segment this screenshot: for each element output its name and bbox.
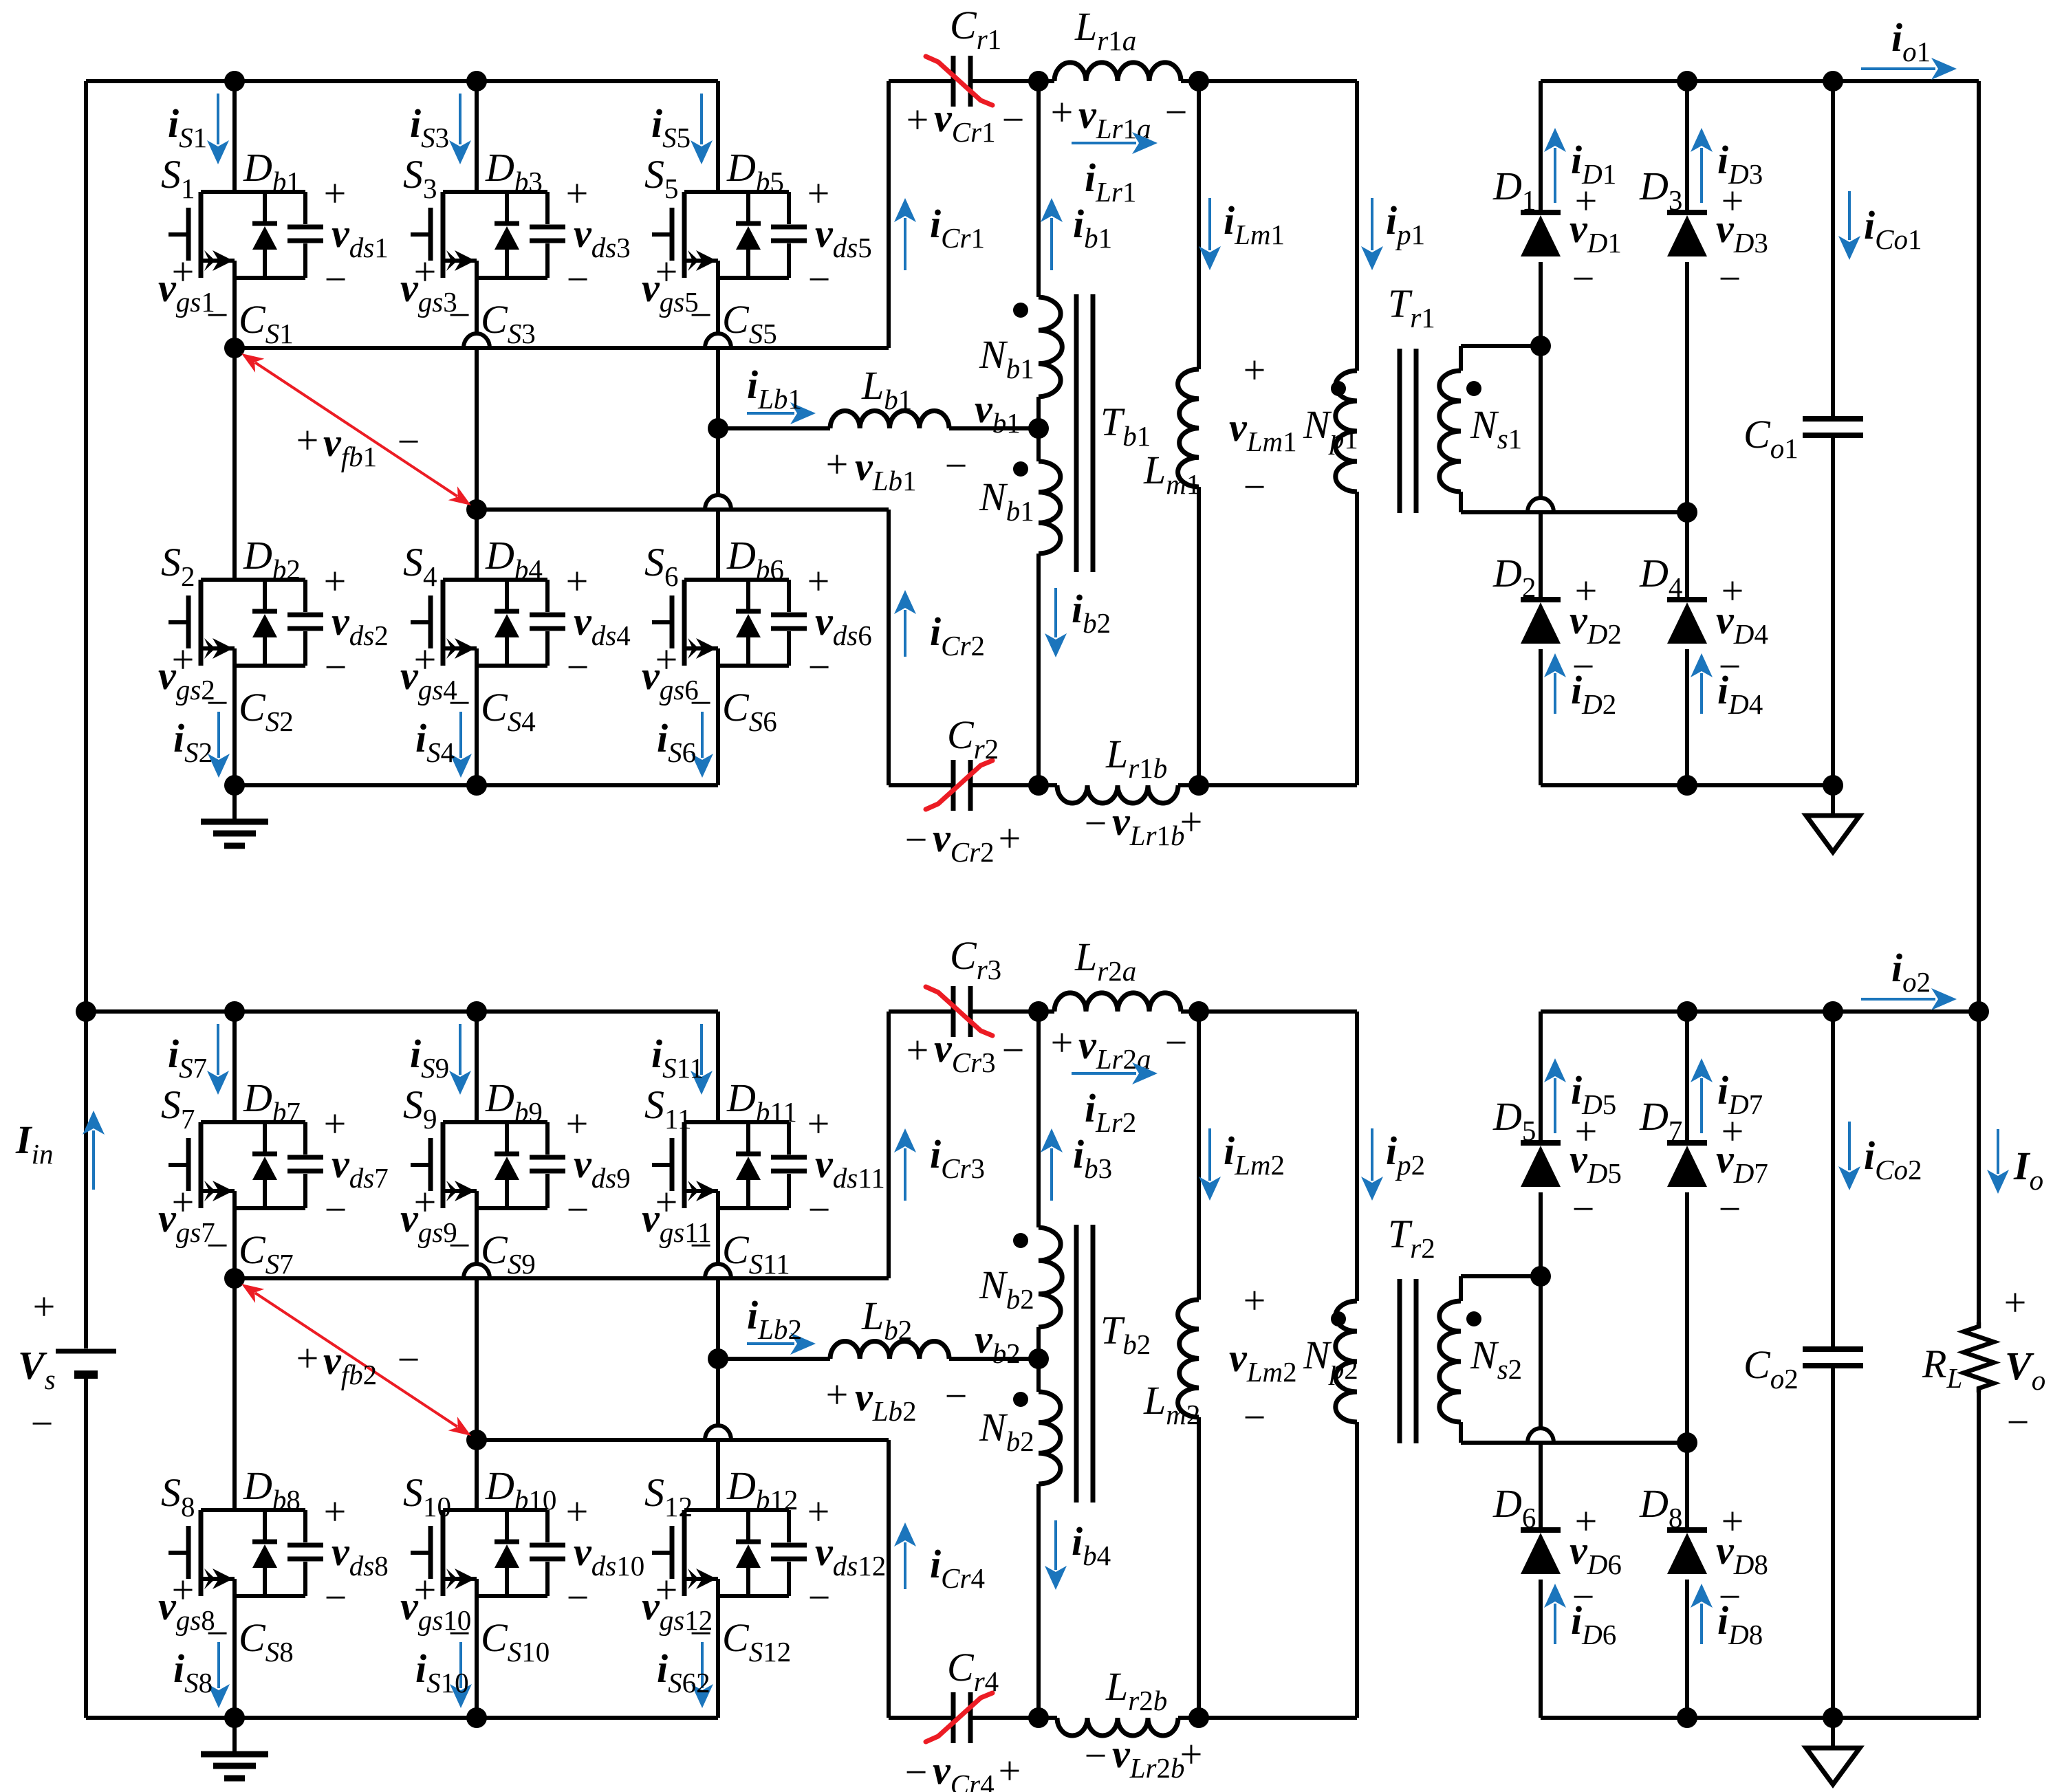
svg-text:−: −: [945, 1374, 968, 1419]
svg-text:+: +: [826, 442, 849, 487]
svg-text:−: −: [567, 257, 589, 302]
svg-text:−: −: [808, 1188, 831, 1232]
svg-text:+: +: [566, 1489, 589, 1534]
svg-text:−: −: [448, 1223, 471, 1268]
svg-text:−: −: [1719, 1187, 1741, 1232]
svg-text:−: −: [1002, 98, 1025, 142]
svg-text:+: +: [566, 171, 589, 216]
svg-text:+: +: [807, 559, 830, 604]
svg-text:+: +: [566, 559, 589, 604]
svg-text:−: −: [905, 818, 928, 862]
svg-text:−: −: [567, 645, 589, 690]
svg-text:−: −: [1572, 256, 1595, 301]
svg-text:+: +: [33, 1285, 56, 1329]
svg-text:−: −: [808, 257, 831, 302]
svg-text:+: +: [1180, 800, 1203, 844]
svg-text:−: −: [2007, 1400, 2030, 1445]
svg-text:−: −: [1572, 1187, 1595, 1232]
svg-text:−: −: [206, 1223, 229, 1268]
svg-text:+: +: [324, 559, 347, 604]
svg-text:−: −: [448, 293, 471, 338]
svg-text:−: −: [1085, 801, 1107, 846]
svg-text:−: −: [1243, 465, 1266, 510]
svg-text:+: +: [324, 1489, 347, 1534]
svg-text:+: +: [999, 1749, 1021, 1792]
svg-text:−: −: [325, 1575, 347, 1620]
svg-text:−: −: [1002, 1028, 1025, 1073]
svg-text:−: −: [945, 444, 968, 488]
svg-text:+: +: [296, 418, 319, 463]
svg-text:+: +: [566, 1102, 589, 1146]
svg-text:−: −: [206, 293, 229, 338]
svg-text:−: −: [1719, 256, 1741, 301]
svg-text:−: −: [690, 293, 713, 338]
svg-text:+: +: [807, 1489, 830, 1534]
svg-text:−: −: [567, 1575, 589, 1620]
svg-text:+: +: [826, 1373, 849, 1417]
svg-text:−: −: [398, 419, 420, 464]
svg-text:−: −: [1165, 90, 1188, 135]
svg-text:+: +: [324, 1102, 347, 1146]
svg-text:−: −: [905, 1750, 928, 1792]
svg-text:+: +: [296, 1336, 319, 1381]
svg-text:−: −: [808, 645, 831, 690]
svg-text:+: +: [1051, 90, 1074, 135]
svg-text:−: −: [31, 1401, 54, 1446]
svg-text:−: −: [690, 1223, 713, 1268]
svg-text:+: +: [807, 1102, 830, 1146]
svg-text:+: +: [324, 171, 347, 216]
svg-text:−: −: [398, 1337, 420, 1382]
svg-text:+: +: [1243, 1278, 1266, 1323]
svg-text:+: +: [906, 1028, 929, 1073]
svg-text:−: −: [1085, 1734, 1107, 1778]
svg-text:−: −: [325, 1188, 347, 1232]
svg-text:+: +: [807, 171, 830, 216]
svg-text:−: −: [567, 1188, 589, 1232]
svg-text:+: +: [906, 98, 929, 142]
svg-text:+: +: [1051, 1020, 1074, 1065]
svg-text:+: +: [1243, 348, 1266, 393]
svg-text:+: +: [1180, 1732, 1203, 1777]
svg-text:+: +: [2004, 1280, 2027, 1325]
svg-text:−: −: [1165, 1020, 1188, 1065]
svg-text:−: −: [325, 257, 347, 302]
svg-text:−: −: [808, 1575, 831, 1620]
svg-text:+: +: [999, 816, 1021, 861]
svg-text:−: −: [1243, 1395, 1266, 1440]
svg-text:−: −: [325, 645, 347, 690]
